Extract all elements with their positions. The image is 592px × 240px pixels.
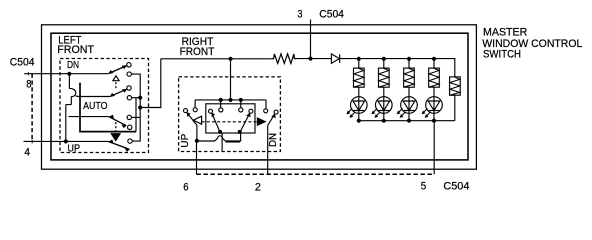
svg-text:C504: C504 <box>443 181 469 193</box>
svg-text:3: 3 <box>297 9 302 21</box>
svg-text:MASTER: MASTER <box>483 26 527 38</box>
svg-text:SWITCH: SWITCH <box>483 49 521 61</box>
svg-text:C504: C504 <box>10 56 35 68</box>
svg-text:UP: UP <box>180 134 191 148</box>
svg-text:FRONT: FRONT <box>57 44 94 56</box>
svg-text:8: 8 <box>26 79 31 91</box>
svg-text:6: 6 <box>183 182 188 194</box>
svg-text:5: 5 <box>421 181 426 193</box>
svg-text:DN: DN <box>268 133 279 147</box>
svg-text:DN: DN <box>67 60 79 71</box>
svg-text:AUTO: AUTO <box>83 101 107 112</box>
svg-text:2: 2 <box>255 182 261 194</box>
svg-text:FRONT: FRONT <box>180 46 215 58</box>
svg-text:UP: UP <box>67 143 80 154</box>
svg-text:C504: C504 <box>319 9 344 21</box>
svg-text:4: 4 <box>24 147 30 159</box>
